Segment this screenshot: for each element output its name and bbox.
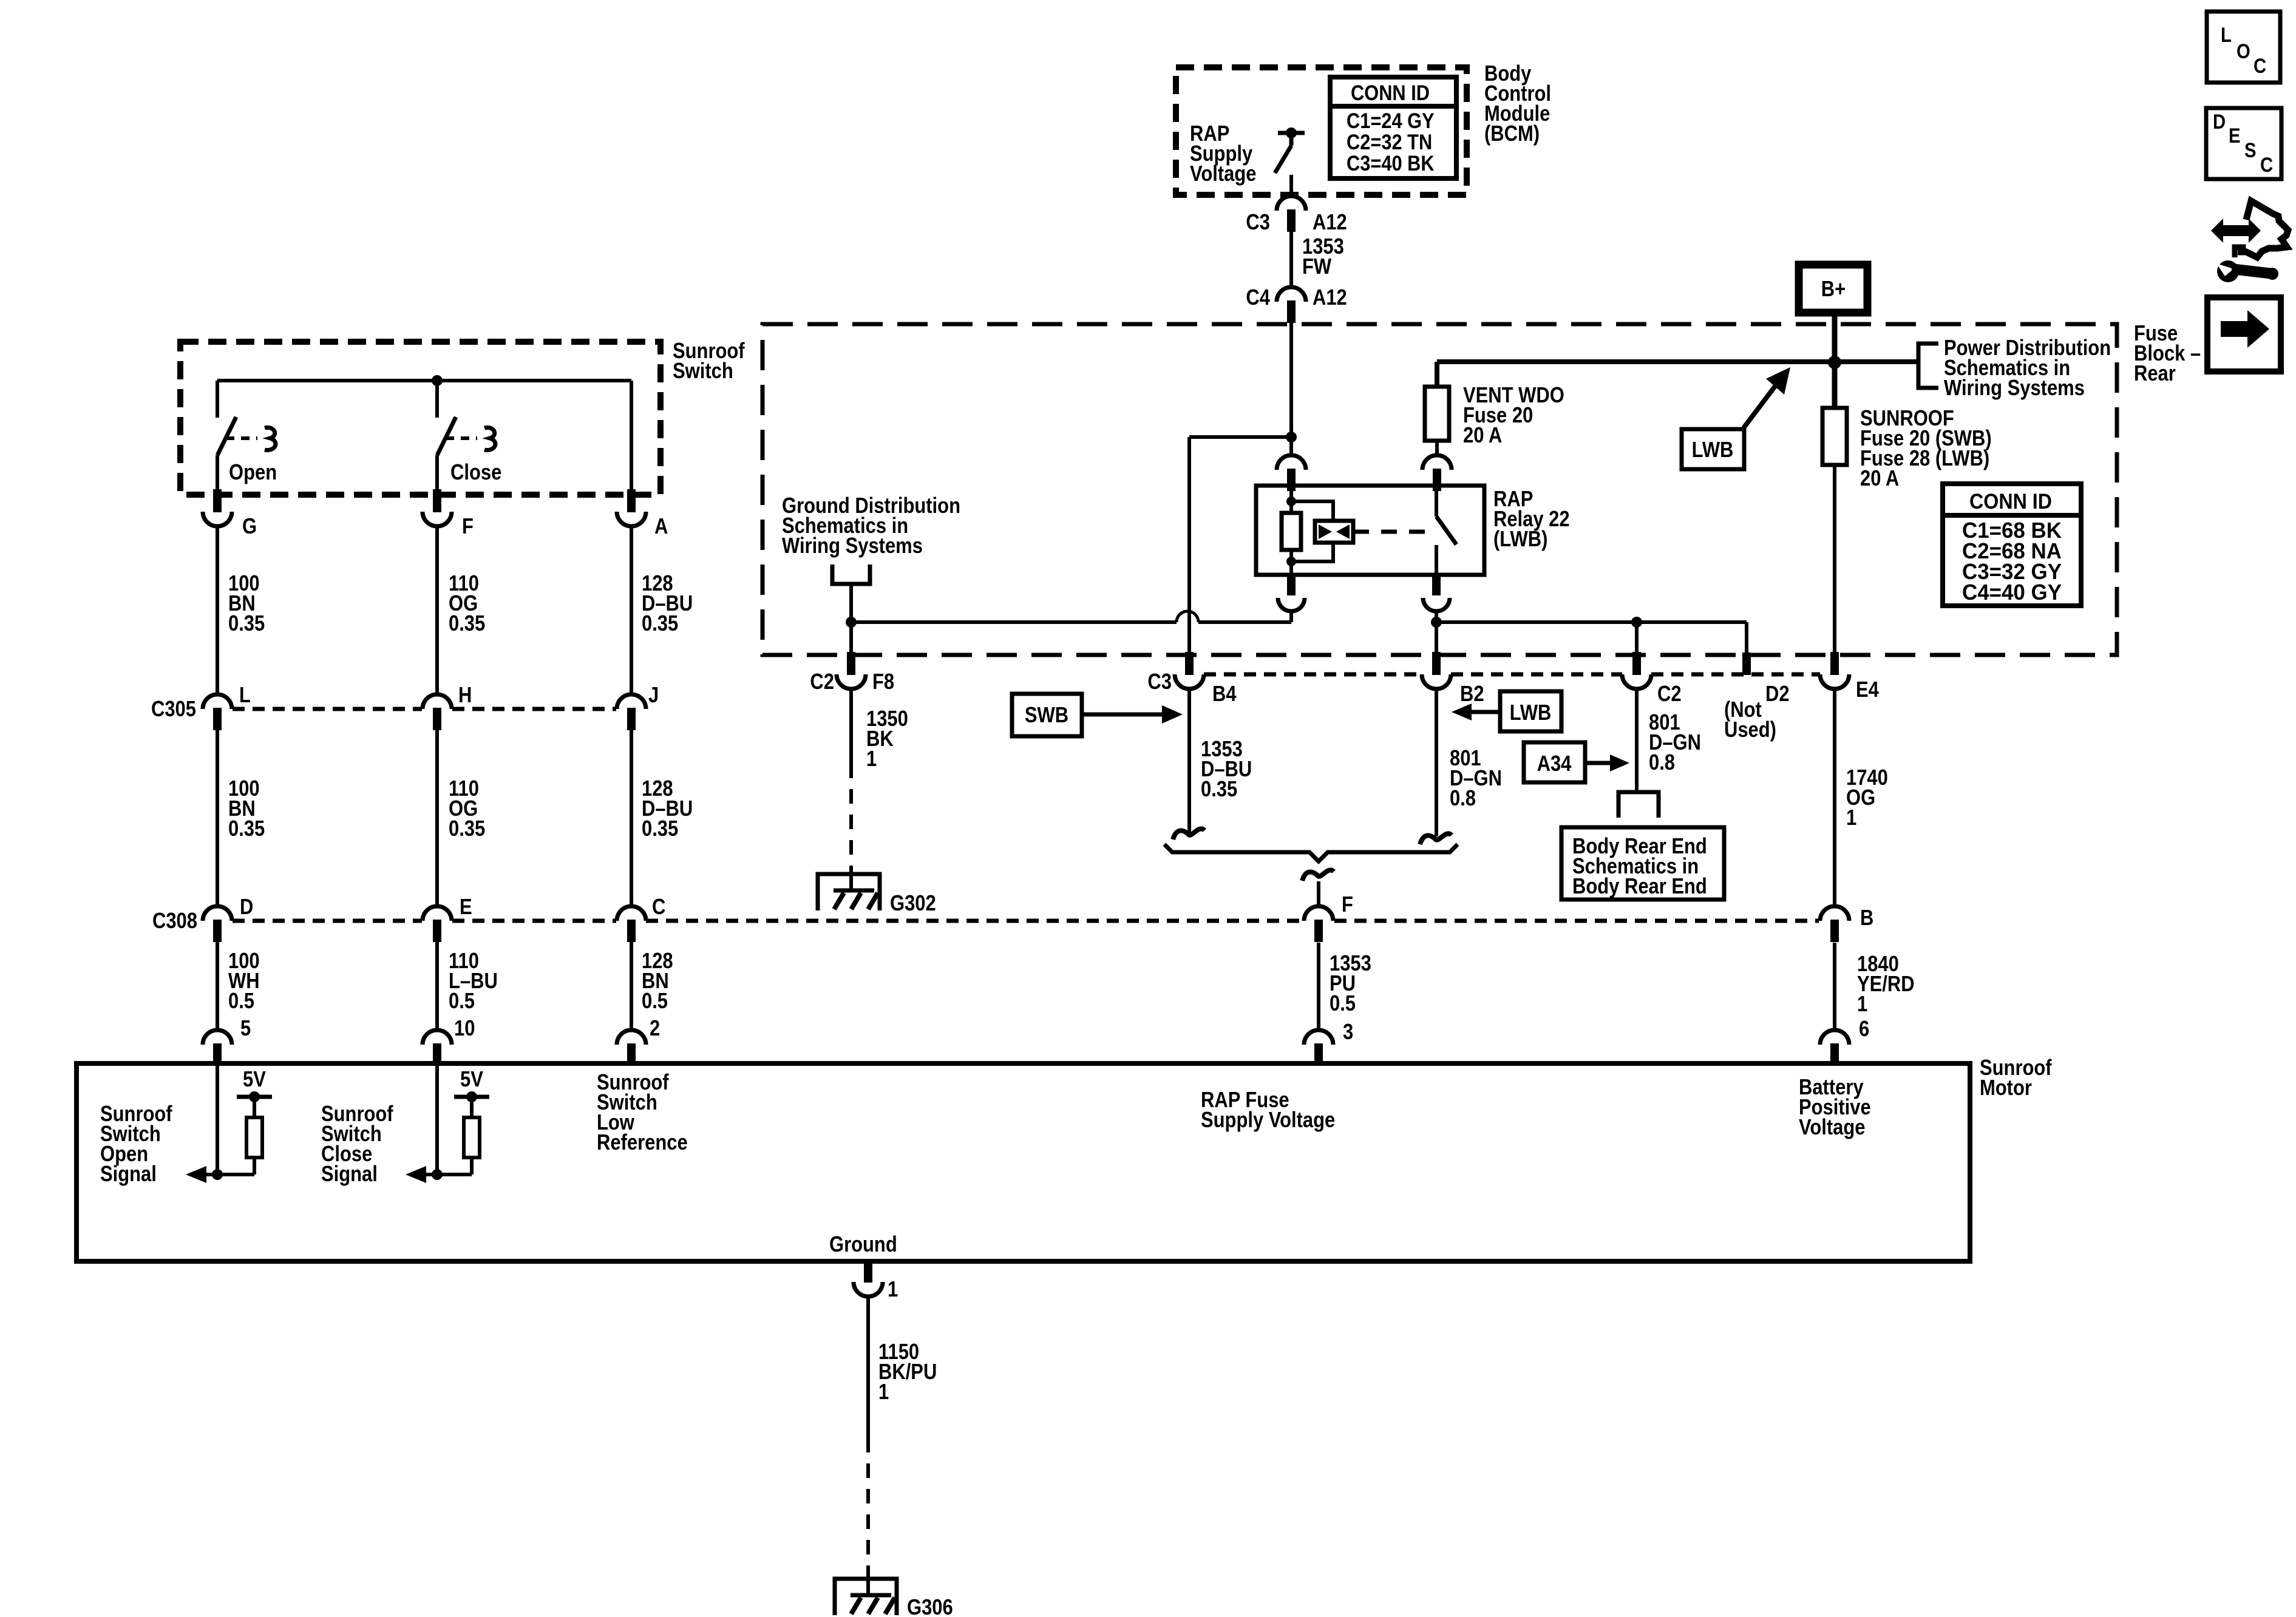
- wire pin10 input: [435, 1063, 439, 1175]
- svg-text:F8: F8: [872, 670, 894, 694]
- wire 128 D-BU 0.35 (upper): [630, 526, 633, 696]
- terminal D2 (Not Used): [1742, 653, 1751, 675]
- svg-text:(BCM): (BCM): [1484, 122, 1540, 146]
- svg-text:FW: FW: [1302, 255, 1331, 279]
- connector into relay (from VENT WDO fuse): [1422, 455, 1452, 470]
- connector pin F (sunroof motor harness): [1304, 906, 1333, 921]
- connector pin C3 of BCM: [1277, 196, 1306, 211]
- svg-text:C4=40 GY: C4=40 GY: [1962, 580, 2062, 605]
- switch Open contact: [217, 417, 236, 455]
- svg-text:A12: A12: [1313, 286, 1347, 310]
- svg-text:1: 1: [888, 1278, 898, 1302]
- svg-text:10: 10: [454, 1017, 475, 1041]
- svg-text:Wiring Systems: Wiring Systems: [782, 534, 923, 558]
- svg-text:C3: C3: [1246, 211, 1270, 235]
- wire relay switched output bus: [1435, 611, 1438, 622]
- wire 801 D-GN 0.8 (B2): [1435, 689, 1438, 836]
- svg-text:Close: Close: [450, 461, 501, 485]
- svg-text:Signal: Signal: [321, 1162, 378, 1187]
- wire 1350 BK 1 to G302: [849, 689, 853, 764]
- pull-up resistor R (open), 5V: [253, 1158, 256, 1175]
- table CONN ID (Fuse Block): [1943, 484, 2081, 606]
- callout LWB (fuse select): [1682, 429, 1744, 469]
- wire into relay coil: [1289, 437, 1293, 455]
- connector pin G: [213, 489, 222, 512]
- svg-text:20 A: 20 A: [1860, 467, 1899, 491]
- svg-text:0.5: 0.5: [1330, 992, 1356, 1016]
- off-page bracket: Power Distribution: [1918, 344, 1938, 388]
- svg-text:LWB: LWB: [1692, 438, 1734, 463]
- wire 801 D-GN 0.8 (C2): [1635, 689, 1639, 792]
- switch Close contact: [437, 417, 456, 455]
- node: switch bus junction: [432, 375, 443, 386]
- wire from B+: [1832, 313, 1838, 362]
- svg-text:C2=32 TN: C2=32 TN: [1347, 130, 1432, 154]
- svg-text:0.8: 0.8: [1450, 787, 1476, 811]
- svg-text:L: L: [239, 683, 251, 708]
- connector pin F (switch): [433, 489, 441, 512]
- svg-text:Switch: Switch: [673, 359, 733, 384]
- svg-text:5V: 5V: [243, 1068, 266, 1092]
- svg-text:B2: B2: [1460, 682, 1484, 707]
- icon LOC box: [2207, 12, 2280, 83]
- node: ground bus junction: [846, 617, 857, 628]
- connector into relay coil pin: [1277, 455, 1306, 470]
- svg-text:20 A: 20 A: [1463, 424, 1502, 448]
- svg-text:G: G: [242, 515, 257, 539]
- callout SWB: [1012, 694, 1082, 736]
- svg-text:C1=24 GY: C1=24 GY: [1347, 109, 1435, 132]
- splice brace (1353 feeds): [1164, 844, 1458, 861]
- svg-text:C: C: [652, 895, 665, 920]
- svg-text:F: F: [462, 515, 474, 539]
- svg-text:A34: A34: [1537, 752, 1572, 776]
- connector pin 10 of sunroof motor: [423, 1030, 452, 1045]
- connector C305 pin L: [203, 694, 232, 709]
- svg-text:B4: B4: [1212, 682, 1237, 707]
- wire 110 L-BU 0.5: [435, 941, 439, 1030]
- svg-text:A: A: [654, 515, 668, 539]
- svg-text:S: S: [2244, 138, 2256, 162]
- connector C308 pin E: [423, 906, 452, 921]
- svg-text:1: 1: [1857, 992, 1867, 1017]
- connector pin E4: [1830, 652, 1839, 675]
- svg-text:5V: 5V: [460, 1068, 483, 1092]
- relay coil (resistor element): [1289, 486, 1293, 501]
- svg-text:O: O: [2237, 39, 2250, 63]
- component box: Sunroof Motor: [76, 1063, 1970, 1261]
- wire 1353 D-BU 0.35: [1187, 689, 1191, 833]
- icon forward-arrow box: [2207, 297, 2281, 371]
- svg-text:Voltage: Voltage: [1190, 162, 1256, 186]
- connector C308 pin C: [617, 906, 646, 921]
- wire B+ feed bus: [1437, 359, 1918, 364]
- svg-text:(LWB): (LWB): [1493, 527, 1547, 552]
- svg-text:A12: A12: [1313, 211, 1347, 235]
- svg-text:0.5: 0.5: [228, 989, 254, 1014]
- switch (RAP supply output driver) inside BCM: [1278, 131, 1305, 135]
- connector pin A: [627, 489, 636, 512]
- connector C308 pin D: [203, 906, 232, 921]
- wire 1840 YE/RD 1: [1833, 943, 1836, 1030]
- connector C3 pin B4: [1185, 652, 1194, 675]
- wire to C2 F8: [849, 622, 853, 652]
- svg-text:1: 1: [866, 747, 877, 771]
- svg-text:0.5: 0.5: [642, 989, 668, 1014]
- svg-text:D: D: [2213, 110, 2226, 134]
- svg-text:F: F: [1342, 893, 1353, 917]
- svg-text:0.5: 0.5: [449, 989, 475, 1014]
- svg-text:Wiring Systems: Wiring Systems: [1944, 376, 2085, 401]
- svg-text:CONN ID: CONN ID: [1969, 490, 2052, 514]
- svg-text:CONN ID: CONN ID: [1351, 81, 1430, 104]
- relay switch contact: [1435, 486, 1438, 517]
- wire 110 OG 0.35 (upper): [435, 526, 439, 696]
- connector row (fuse block bottom), dotted: [1204, 673, 1422, 677]
- svg-text:0.35: 0.35: [449, 817, 485, 841]
- svg-text:C: C: [2254, 54, 2266, 78]
- wire 128 D-BU 0.35 (lower): [630, 730, 633, 907]
- svg-text:LWB: LWB: [1510, 701, 1552, 725]
- connector C305 pin H: [423, 694, 452, 709]
- connector C305 pin J: [617, 694, 646, 709]
- svg-text:Reference: Reference: [597, 1131, 688, 1155]
- svg-text:C2: C2: [810, 670, 834, 694]
- connector pin 1 of sunroof motor: [864, 1259, 872, 1283]
- svg-text:G306: G306: [907, 1596, 953, 1617]
- off-page bracket: Ground Distribution: [832, 564, 870, 584]
- svg-text:Ground: Ground: [829, 1233, 897, 1257]
- connector pin B (sunroof motor harness): [1820, 906, 1849, 921]
- svg-text:0.8: 0.8: [1649, 751, 1675, 775]
- svg-text:Rear: Rear: [2134, 362, 2176, 386]
- svg-text:SWB: SWB: [1025, 703, 1068, 728]
- svg-text:5: 5: [240, 1017, 251, 1041]
- svg-text:H: H: [458, 683, 472, 708]
- wire 1353 FW: [1289, 231, 1293, 287]
- svg-text:C305: C305: [151, 697, 196, 722]
- svg-text:0.35: 0.35: [642, 817, 678, 841]
- wire 100 BN 0.35 (lower): [216, 730, 219, 907]
- svg-text:D: D: [240, 895, 253, 920]
- svg-text:E: E: [2229, 124, 2240, 147]
- node: RAP relay coil feed junction: [1286, 432, 1297, 442]
- svg-text:G302: G302: [890, 892, 936, 916]
- ground G302: [849, 874, 853, 889]
- connector C2 pin F8: [847, 652, 855, 675]
- callout LWB (B2): [1500, 691, 1561, 731]
- svg-text:B: B: [1860, 906, 1873, 931]
- svg-text:E4: E4: [1856, 678, 1879, 702]
- relay K: RAP Relay 22 (LWB): [1256, 486, 1484, 575]
- connector pin 3 of sunroof motor: [1304, 1030, 1333, 1045]
- svg-text:0.35: 0.35: [228, 612, 265, 636]
- svg-text:Body Rear End: Body Rear End: [1572, 875, 1707, 899]
- svg-text:B+: B+: [1821, 277, 1846, 302]
- svg-text:C3=40 BK: C3=40 BK: [1347, 151, 1435, 175]
- fuse: VENT WDO Fuse 20 20A: [1435, 362, 1439, 387]
- connector pin 6 of sunroof motor: [1820, 1030, 1849, 1045]
- svg-text:1: 1: [878, 1380, 889, 1405]
- wire 1150 BK/PU 1: [866, 1297, 870, 1438]
- svg-text:0.35: 0.35: [228, 817, 265, 841]
- svg-text:J: J: [648, 683, 659, 708]
- svg-text:3: 3: [1343, 1020, 1353, 1045]
- wire from C4 down into fuse block: [1289, 316, 1293, 436]
- wire 1740 OG 1: [1833, 689, 1836, 907]
- connector pin C4 / terminal A12: [1277, 287, 1306, 302]
- svg-text:C4: C4: [1246, 286, 1270, 310]
- wire to F connector: [1317, 881, 1320, 907]
- wire 128 BN 0.5: [630, 941, 633, 1030]
- svg-text:Open: Open: [229, 461, 277, 485]
- svg-text:C2: C2: [1657, 682, 1682, 707]
- wire pin5 input: [216, 1063, 219, 1175]
- connector pin B2: [1432, 652, 1441, 675]
- wire 100 BN 0.35 (upper): [216, 526, 219, 696]
- relay actuation dashed link: [1353, 530, 1428, 534]
- ground G306: [866, 1573, 870, 1593]
- relay lower pin connectors: [1287, 575, 1296, 595]
- svg-text:0.35: 0.35: [449, 612, 485, 636]
- icon adjust/repair (double arrow, part outline, wrench): [2211, 219, 2261, 243]
- svg-text:C308: C308: [152, 909, 197, 934]
- svg-text:0.35: 0.35: [1201, 778, 1237, 802]
- connector pin C2: [1632, 652, 1641, 675]
- svg-text:Motor: Motor: [1980, 1076, 2032, 1100]
- component box: Body Control Module (BCM), dashed: [1176, 67, 1467, 195]
- wire 100 WH 0.5: [216, 941, 219, 1030]
- svg-text:0.35: 0.35: [642, 612, 678, 636]
- callout A34: [1524, 742, 1585, 782]
- wire 1353 PU 0.5: [1317, 943, 1320, 1030]
- pull-up resistor R (close), 5V: [470, 1158, 474, 1175]
- component box: Fuse Block - Rear, dashed: [763, 324, 2117, 655]
- icon DESC box: [2206, 108, 2281, 179]
- fuse: SUNROOF Fuse 20/28 20A: [1822, 408, 1847, 465]
- svg-text:Supply Voltage: Supply Voltage: [1201, 1108, 1335, 1133]
- signal arrow: Sunroof Switch Close Signal: [426, 1173, 472, 1176]
- wire 110 OG 0.35 (lower): [435, 730, 439, 907]
- wire relay coil return bus: [1289, 611, 1293, 622]
- connector pin 2 of sunroof motor: [617, 1030, 646, 1045]
- relay coil suppression element (bowtie) and loop: [1291, 501, 1333, 521]
- svg-text:Used): Used): [1724, 718, 1776, 742]
- svg-text:Voltage: Voltage: [1799, 1116, 1865, 1140]
- callout box Body Rear End Schematics in Body Rear End: [1561, 827, 1724, 900]
- wire switch common bus: [217, 379, 631, 382]
- svg-text:C: C: [2260, 153, 2273, 177]
- power node B+: [1799, 265, 1867, 313]
- signal arrow: Sunroof Switch Open Signal: [206, 1173, 254, 1176]
- connector pin 5 of sunroof motor: [203, 1030, 232, 1045]
- svg-text:D2: D2: [1765, 682, 1790, 707]
- svg-text:1: 1: [1846, 806, 1856, 830]
- svg-text:C3: C3: [1147, 670, 1172, 694]
- svg-text:E: E: [460, 895, 472, 920]
- table CONN ID (BCM): [1330, 77, 1456, 178]
- svg-text:L: L: [2221, 23, 2232, 47]
- svg-text:Signal: Signal: [100, 1162, 157, 1187]
- svg-text:6: 6: [1859, 1017, 1869, 1042]
- component box: Sunroof Switch, dashed: [180, 342, 661, 495]
- off-page bracket to Body Rear End: [1618, 792, 1659, 818]
- wire branch to SWB output (C3 B4): [1189, 435, 1291, 439]
- node: B+ junction: [1828, 356, 1841, 369]
- svg-text:2: 2: [650, 1017, 660, 1041]
